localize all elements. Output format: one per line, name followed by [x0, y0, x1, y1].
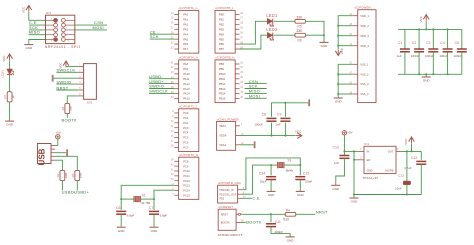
wire [336, 158, 345, 181]
VCC supply (IC1 out) [404, 137, 414, 145]
svg-text:TPS7A+33: TPS7A+33 [363, 176, 379, 180]
svg-text:uC/POWER: uC/POWER [355, 6, 372, 10]
svg-text:4.7uF: 4.7uF [404, 166, 412, 170]
junction [447, 28, 449, 30]
wire [55, 140, 58, 146]
svg-text:PC1: PC1 [183, 116, 189, 120]
svg-text:100nF: 100nF [454, 54, 463, 58]
svg-text:VSSA: VSSA [219, 143, 226, 147]
capacitor C12 [404, 156, 426, 170]
svg-text:PA1: PA1 [183, 18, 188, 22]
svg-text:PA14: PA14 [183, 92, 190, 96]
svg-text:GND: GND [335, 100, 343, 104]
junction [425, 73, 427, 75]
wire [299, 165, 301, 175]
junction [337, 45, 339, 47]
junction [323, 34, 325, 36]
svg-text:GND: GND [6, 123, 14, 127]
wire [271, 164, 277, 166]
ground (C11) [286, 237, 295, 243]
wire (cap bank bottom rail) [398, 73, 462, 75]
wire [149, 78, 174, 80]
svg-text:GND: GND [321, 44, 329, 48]
svg-text:PA11: PA11 [183, 77, 190, 81]
svg-text:C.E: C.E [252, 196, 260, 201]
wire [418, 29, 420, 49]
IC block uC/PORTB_H [215, 56, 244, 103]
wire [425, 21, 427, 29]
net label C.E [29, 20, 37, 25]
IC block uC/PORTC_H [171, 153, 199, 199]
wire (regulator ground rail) [354, 194, 421, 196]
junction [337, 25, 339, 27]
wire [274, 34, 295, 36]
wire [306, 34, 325, 36]
junction [418, 73, 420, 75]
svg-text:100nF: 100nF [439, 54, 448, 58]
wire [150, 33, 175, 35]
svg-text:330: 330 [296, 29, 302, 33]
svg-text:R4: R4 [286, 208, 290, 212]
wire [66, 114, 68, 118]
svg-text:GND: GND [287, 239, 295, 243]
svg-text:VCC: VCC [21, 6, 25, 13]
wire [66, 65, 78, 67]
svg-text:PC14: PC14 [183, 189, 190, 193]
capacitor C4 [439, 41, 452, 58]
wire [154, 190, 174, 199]
junction [153, 198, 155, 200]
svg-text:LED2: LED2 [266, 27, 278, 32]
svg-text:PA12: PA12 [183, 82, 190, 86]
svg-text:IN: IN [367, 150, 370, 154]
net label SWDCLK (SV1) [56, 68, 75, 73]
IC block uC/PORTC_L [171, 105, 199, 152]
svg-text:OUT: OUT [388, 150, 394, 154]
svg-text:VDD_3: VDD_3 [360, 34, 369, 38]
svg-text:uC/PORTA_L: uC/PORTA_L [179, 6, 198, 10]
svg-text:VDDA: VDDA [219, 134, 227, 138]
svg-text:MOSI: MOSI [249, 94, 260, 99]
svg-text:PC12: PC12 [183, 179, 190, 183]
net label SWDIO (SV1) [56, 79, 71, 84]
wire [420, 164, 422, 194]
svg-text:100nF: 100nF [254, 122, 263, 126]
wire [29, 40, 46, 45]
resistor R5 [295, 15, 306, 28]
svg-text:MISO: MISO [29, 30, 40, 35]
wire [338, 16, 353, 49]
svg-text:SCK: SCK [150, 34, 159, 39]
wire [55, 152, 66, 154]
wire [343, 135, 345, 151]
svg-text:GND: GND [25, 46, 33, 50]
IC block uC/PORTB_L [215, 6, 244, 53]
wire [149, 88, 174, 90]
wire [270, 165, 272, 175]
svg-text:PB8: PB8 [219, 62, 225, 66]
svg-text:uC/RESET: uC/RESET [218, 205, 233, 209]
svg-text:uC/PORTC_L: uC/PORTC_L [179, 105, 198, 109]
svg-text:NC/FB: NC/FB [385, 169, 393, 173]
wire [353, 151, 355, 194]
ground (regulator rail) [350, 198, 359, 204]
wire [284, 164, 300, 166]
wire [274, 20, 295, 22]
svg-text:SV1: SV1 [87, 100, 93, 104]
IC block uC/PORTA_L [171, 6, 199, 53]
wire [406, 151, 408, 181]
wire [272, 103, 309, 117]
junction [418, 28, 420, 30]
wire [284, 103, 286, 117]
svg-text:PA9: PA9 [183, 67, 188, 71]
net label C.E (PD2) [252, 196, 260, 201]
svg-text:PB4: PB4 [219, 32, 225, 36]
svg-text:VCC: VCC [419, 15, 423, 22]
svg-text:22R: 22R [64, 173, 68, 178]
VCC supply (VDDA, right) [295, 129, 302, 138]
net label NRST (SV1) [56, 85, 68, 90]
svg-text:VCC: VCC [2, 55, 6, 62]
resistor R6 [295, 29, 306, 42]
svg-text:PA15: PA15 [183, 97, 190, 101]
connector USB [38, 144, 56, 166]
wire [120, 199, 122, 210]
svg-text:PC6: PC6 [183, 141, 189, 145]
svg-text:PB15: PB15 [219, 97, 226, 101]
svg-text:22R: 22R [79, 173, 83, 178]
svg-text:PC5: PC5 [183, 136, 189, 140]
wire [284, 123, 286, 136]
svg-text:6.8pF: 6.8pF [160, 213, 168, 217]
IC block uC/PORTA_H [171, 56, 199, 103]
ground (LED3) [5, 121, 14, 127]
wire [242, 197, 252, 199]
wire [29, 24, 46, 26]
junction [337, 73, 339, 75]
resistor R3 [71, 170, 83, 180]
capacitor C15 [295, 172, 312, 184]
wire [149, 83, 174, 85]
svg-text:NRST: NRST [221, 212, 229, 216]
svg-text:6.8pF: 6.8pF [127, 213, 135, 217]
svg-text:PB1: PB1 [219, 18, 225, 22]
svg-text:R6: R6 [298, 38, 302, 42]
svg-text:32.768: 32.768 [141, 201, 150, 205]
wire [425, 74, 427, 76]
ground (VSS rail) [334, 98, 343, 104]
wire [53, 77, 78, 79]
svg-text:GND: GND [65, 149, 69, 155]
wire [240, 135, 295, 137]
capacitor C6 [116, 206, 135, 217]
wire [76, 180, 78, 190]
svg-text:C6: C6 [116, 206, 121, 210]
ground (SV1 rotated) [51, 75, 55, 82]
svg-text:PB13: PB13 [219, 87, 226, 91]
junction [425, 28, 427, 30]
net label MISO (JP1) [29, 30, 40, 35]
svg-text:VCC: VCC [340, 47, 344, 54]
net label USBD- (PA11) [149, 74, 163, 79]
wire [270, 180, 272, 192]
wire [338, 64, 353, 97]
svg-text:C3: C3 [426, 41, 431, 45]
svg-text:LED1: LED1 [266, 13, 278, 18]
wire [338, 93, 353, 95]
junction [337, 83, 339, 85]
wire [240, 35, 268, 49]
junction [353, 159, 355, 161]
resistor R7 [3, 92, 15, 102]
svg-text:EN: EN [367, 158, 371, 162]
svg-text:C8: C8 [262, 112, 267, 116]
net label BOOT0 (R1) [62, 118, 78, 123]
wire [271, 123, 273, 136]
power flag VCC (SV1) [59, 61, 69, 69]
svg-text:VSS_1: VSS_1 [360, 62, 369, 66]
svg-text:PC9: PC9 [183, 164, 189, 168]
wire [9, 75, 11, 92]
wire [241, 213, 286, 215]
svg-text:GND: GND [253, 142, 257, 148]
svg-text:uC/PORTD_OSC: uC/PORTD_OSC [218, 181, 242, 185]
svg-text:GND: GND [332, 187, 340, 191]
junction [270, 213, 272, 215]
wire [75, 24, 107, 26]
wire [404, 52, 406, 74]
wire [153, 214, 155, 227]
net label NRST (R4) [316, 209, 328, 214]
ground (USB rotated) [65, 149, 69, 156]
wire [121, 198, 134, 200]
svg-text:BOOT0: BOOT0 [246, 220, 262, 225]
svg-text:PA0: PA0 [183, 13, 188, 17]
wire [121, 185, 174, 199]
wire [404, 29, 406, 49]
net label CE (PA4) [150, 29, 156, 34]
wire [240, 21, 268, 44]
wire [242, 165, 271, 194]
svg-text:VCC: VCC [404, 138, 408, 145]
net label CSN (JP1) [94, 20, 103, 25]
svg-text:1uF: 1uF [275, 122, 280, 126]
wire [461, 52, 463, 74]
svg-text:GND: GND [297, 193, 305, 197]
wire [338, 73, 353, 75]
wire [270, 214, 272, 222]
svg-text:PA6: PA6 [183, 42, 188, 46]
junction [411, 150, 413, 152]
svg-text:PD0/OSC_IN: PD0/OSC_IN [219, 189, 233, 192]
wire [338, 35, 353, 37]
svg-text:C15: C15 [303, 172, 309, 176]
svg-text:PB7: PB7 [219, 47, 225, 51]
connector SV1 (SWD header) [78, 64, 97, 105]
svg-text:X1: X1 [142, 193, 146, 197]
svg-text:20pF: 20pF [305, 179, 312, 183]
IC block uC/POWER (VDD/VSS) [349, 6, 376, 103]
wire [56, 83, 78, 85]
svg-text:uC/PORTB_L: uC/PORTB_L [215, 6, 234, 10]
crystal X3 [278, 158, 294, 172]
LED LED2 [266, 27, 278, 40]
svg-text:PB14: PB14 [219, 92, 226, 96]
wire [406, 185, 408, 195]
wire [420, 151, 422, 160]
junction [120, 198, 122, 200]
svg-text:PB0: PB0 [219, 13, 225, 17]
svg-text:C4: C4 [440, 41, 445, 45]
capacitor C2 [411, 41, 424, 58]
svg-text:R2: R2 [56, 173, 60, 177]
svg-text:1uF: 1uF [334, 161, 339, 165]
svg-text:MOSI: MOSI [93, 25, 104, 30]
wire (cap bank top rail) [398, 28, 462, 30]
svg-text:PB10: PB10 [219, 72, 226, 76]
ground (VSSA, rotated) [253, 141, 257, 148]
wire [402, 150, 421, 152]
svg-text:BOOT0: BOOT0 [221, 221, 231, 225]
wire [432, 52, 434, 74]
net label SCK (JP1) [29, 25, 38, 30]
svg-text:IC1: IC1 [364, 142, 369, 146]
wire [299, 180, 301, 192]
svg-text:8MHz: 8MHz [286, 168, 294, 172]
svg-text:PA4: PA4 [183, 32, 188, 36]
svg-text:PC7: PC7 [183, 146, 189, 150]
svg-text:GND: GND [423, 79, 431, 83]
svg-text:1uF: 1uF [397, 54, 402, 58]
ground (JP1) [24, 45, 33, 51]
capacitor C5 [454, 41, 467, 58]
ground (LED resistors) [320, 42, 329, 48]
junction [406, 150, 408, 152]
svg-text:PA8: PA8 [183, 62, 188, 66]
junction [284, 102, 286, 104]
svg-text:GND: GND [118, 229, 126, 233]
junction [343, 150, 345, 152]
svg-text:PB12: PB12 [219, 82, 226, 86]
svg-text:PC0: PC0 [183, 111, 189, 115]
svg-text:PB2: PB2 [219, 22, 225, 26]
svg-text:C7: C7 [149, 206, 154, 210]
svg-text:R7: R7 [3, 95, 7, 99]
resistor R4 [283, 208, 296, 221]
svg-text:PC4: PC4 [183, 131, 189, 135]
svg-text:10k: 10k [69, 106, 73, 111]
net label SCK (PA5) [150, 34, 159, 39]
svg-text:PB5: PB5 [219, 37, 225, 41]
wire [67, 96, 78, 104]
junction [432, 28, 434, 30]
net label CSN (PORTB_H) [249, 79, 258, 84]
svg-text:R5: R5 [298, 25, 302, 29]
svg-text:C12: C12 [411, 156, 417, 160]
svg-text:PB9: PB9 [219, 67, 225, 71]
svg-text:C5: C5 [455, 41, 460, 45]
wire [353, 195, 355, 198]
capacitor C13 [395, 174, 411, 191]
wire [120, 214, 122, 227]
svg-text:330: 330 [296, 15, 302, 19]
svg-text:PA2: PA2 [183, 22, 188, 26]
svg-text:GND: GND [367, 169, 373, 173]
VCC supply (cap bank) [419, 15, 429, 23]
svg-text:GND: GND [151, 229, 159, 233]
wire [245, 88, 267, 90]
svg-text:uC/PORTA_H: uC/PORTA_H [179, 56, 198, 60]
wire [344, 150, 358, 152]
crystal X1 [134, 193, 150, 205]
junction [432, 73, 434, 75]
svg-text:VSS_4: VSS_4 [360, 92, 369, 96]
svg-text:100nF: 100nF [425, 54, 434, 58]
svg-text:PA7: PA7 [183, 47, 188, 51]
wire [140, 198, 154, 200]
svg-text:LED3: LED3 [1, 70, 5, 78]
wire [56, 89, 78, 91]
svg-text:VDD_2: VDD_2 [360, 24, 369, 28]
wire [29, 12, 46, 20]
svg-text:BOOT0: BOOT0 [62, 118, 78, 123]
net label USBD- (USB) [62, 190, 76, 195]
svg-text:PC15: PC15 [183, 193, 190, 197]
junction [284, 135, 286, 137]
wire [56, 71, 78, 73]
capacitor C10 [333, 146, 350, 165]
net label MOSI (JP1) [93, 25, 104, 30]
svg-text:VBAT: VBAT [219, 124, 226, 128]
svg-text:PD2: PD2 [219, 197, 224, 200]
wire [61, 180, 63, 190]
net label SWDIO (PA13) [149, 84, 164, 89]
wire [242, 158, 300, 190]
net label USBD+ (USB) [74, 190, 89, 195]
wire [55, 160, 62, 170]
svg-text:uC/AN_POWER: uC/AN_POWER [217, 117, 240, 121]
wire [29, 34, 46, 36]
IC U1 voltage regulator IC1 [358, 142, 402, 180]
+5V supply (USB) [56, 130, 61, 139]
capacitor C3 [425, 41, 438, 58]
junction [337, 35, 339, 37]
capacitor C11 [266, 220, 283, 234]
wire [343, 151, 345, 155]
svg-text:20pF: 20pF [260, 179, 267, 183]
svg-text:VDD_4: VDD_4 [360, 44, 369, 48]
svg-text:VSS_2: VSS_2 [360, 72, 369, 76]
svg-text:GND: GND [268, 193, 276, 197]
wire [29, 29, 46, 31]
svg-text:PA3: PA3 [183, 27, 188, 31]
ground (C15) [296, 191, 305, 197]
resistor R1 [61, 103, 73, 113]
svg-text:PB3: PB3 [219, 27, 225, 31]
capacitor C14 [259, 172, 276, 184]
svg-text:NRF24L01 - SPI1: NRF24L01 - SPI1 [45, 45, 81, 49]
ground (C14) [267, 191, 276, 197]
svg-text:PD1/OSC_OUT: PD1/OSC_OUT [219, 193, 236, 196]
svg-text:R1: R1 [61, 106, 65, 110]
wire [354, 159, 358, 161]
junction [447, 73, 449, 75]
wire [245, 83, 267, 85]
wire [241, 221, 246, 223]
junction [271, 135, 273, 137]
capacitor C7 [149, 206, 168, 217]
